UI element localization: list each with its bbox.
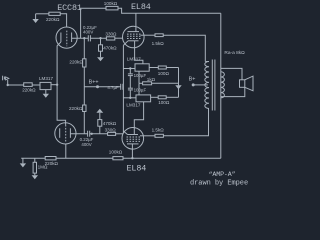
- svg-text:100kΩ: 100kΩ: [109, 150, 123, 155]
- svg-text:220kΩ: 220kΩ: [69, 59, 83, 64]
- svg-text:100Ω: 100Ω: [158, 100, 170, 105]
- svg-text:400V: 400V: [81, 142, 91, 147]
- svg-text:drawn by Empee: drawn by Empee: [190, 180, 248, 188]
- svg-text:1MΩ: 1MΩ: [38, 164, 48, 169]
- svg-text:Ra-a 8kΩ: Ra-a 8kΩ: [224, 50, 245, 56]
- svg-text:100kΩ: 100kΩ: [104, 1, 118, 6]
- svg-text:LM317: LM317: [126, 103, 140, 108]
- svg-text:330Ω: 330Ω: [105, 32, 117, 37]
- svg-text:100µF: 100µF: [134, 87, 147, 92]
- svg-text:470kΩ: 470kΩ: [103, 46, 117, 51]
- svg-text:“AMP-A”: “AMP-A”: [209, 171, 236, 178]
- svg-text:4.7µF: 4.7µF: [107, 85, 119, 90]
- svg-text:330Ω: 330Ω: [105, 127, 117, 132]
- svg-text:ECC81: ECC81: [57, 3, 82, 13]
- svg-text:220kΩ: 220kΩ: [46, 17, 60, 22]
- svg-text:220kΩ: 220kΩ: [22, 87, 36, 92]
- svg-text:B+: B+: [189, 77, 196, 83]
- svg-text:1.5kΩ: 1.5kΩ: [152, 41, 165, 46]
- svg-text:220kΩ: 220kΩ: [69, 106, 83, 111]
- svg-text:LM317: LM317: [39, 76, 53, 81]
- svg-text:LM317: LM317: [127, 57, 141, 62]
- svg-text:400V: 400V: [83, 29, 93, 34]
- svg-text:100µF: 100µF: [134, 73, 147, 78]
- svg-text:EL84: EL84: [131, 2, 151, 12]
- svg-text:B++: B++: [89, 79, 99, 85]
- svg-text:EL84: EL84: [127, 163, 147, 173]
- svg-text:470kΩ: 470kΩ: [103, 121, 117, 126]
- svg-text:1.5kΩ: 1.5kΩ: [152, 127, 165, 132]
- svg-text:1kΩ: 1kΩ: [147, 77, 156, 82]
- svg-text:100Ω: 100Ω: [158, 71, 170, 76]
